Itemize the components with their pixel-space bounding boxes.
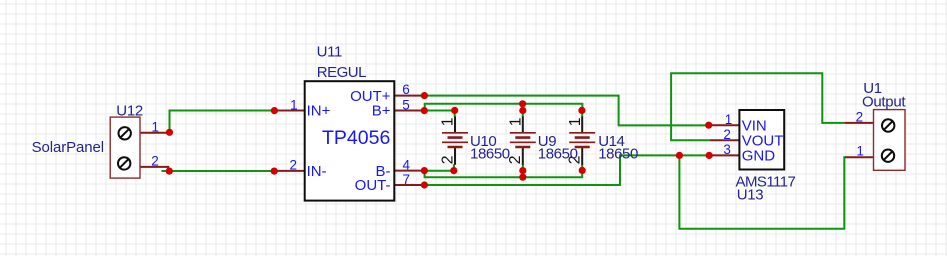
node U9 bottom — [519, 167, 526, 174]
pin U12.2 — [140, 167, 168, 171]
node U9 bus bottom — [519, 174, 526, 181]
wire U9 top drop — [522, 104, 524, 111]
node U12 pin2 — [166, 168, 173, 175]
wire OUT+ to VIN — [424, 96, 708, 126]
connector U12 body — [110, 117, 140, 178]
pin U12.1 — [140, 132, 170, 134]
svg-text:U12: U12 — [116, 103, 143, 120]
svg-text:2: 2 — [289, 157, 297, 172]
pin TP4056 B- — [394, 170, 424, 172]
node B- — [421, 167, 428, 174]
pin AMS1117 VIN — [709, 124, 740, 126]
wire U10 top stub — [454, 110, 456, 117]
pin TP4056 IN- — [274, 170, 305, 172]
svg-text:B+: B+ — [372, 103, 391, 120]
junction dots — [166, 92, 713, 189]
svg-text:U11: U11 — [317, 43, 343, 60]
pin TP4056 B+ — [394, 110, 424, 112]
svg-text:6: 6 — [402, 82, 410, 97]
pin TP4056 IN+ — [274, 110, 304, 112]
wire B- to U10 bottom — [424, 170, 453, 172]
node GND pin — [706, 152, 713, 159]
wire U10 bottom stub — [453, 164, 455, 170]
pin AMS1117 GND — [709, 154, 739, 156]
svg-text:REGUL: REGUL — [317, 64, 366, 81]
connector U12 screw 1 — [119, 127, 131, 139]
svg-text:3: 3 — [723, 142, 731, 157]
battery U10 short plates — [448, 138, 463, 147]
svg-text:1: 1 — [151, 119, 159, 134]
pin TP4056 OUT- — [394, 184, 424, 186]
battery U10 long plates — [442, 133, 468, 143]
node IN- — [271, 168, 278, 175]
svg-text:1: 1 — [725, 112, 733, 127]
node U12 pin1 — [166, 129, 173, 136]
IC U13 AMS1117 body — [739, 110, 784, 170]
svg-text:18650: 18650 — [470, 146, 510, 163]
wire U9 bottom drop — [522, 171, 524, 178]
node B+ — [421, 107, 428, 114]
battery U9 long plates — [510, 133, 536, 143]
IC U11 TP4056 body — [305, 81, 395, 200]
wire U14 top stub — [581, 110, 583, 117]
svg-text:GND: GND — [742, 148, 776, 165]
battery U9 short plates — [515, 138, 530, 147]
svg-text:2: 2 — [723, 127, 731, 142]
svg-text:OUT-: OUT- — [355, 177, 391, 194]
svg-text:2: 2 — [439, 156, 456, 165]
battery U9 pin leads — [522, 117, 524, 165]
battery U14 long plates — [569, 133, 595, 143]
wire U14 bottom stub — [581, 164, 583, 170]
connector U1 screw 2 — [882, 150, 894, 162]
battery U9 — [507, 117, 536, 165]
node U9 top — [519, 107, 526, 114]
battery U14 — [567, 117, 596, 165]
wire U9 bottom stub — [522, 164, 524, 170]
node U14 bottom — [579, 167, 586, 174]
wire B+ to U10 top — [424, 110, 454, 112]
wire U9 top stub — [522, 111, 524, 118]
svg-text:TP4056: TP4056 — [322, 127, 390, 149]
battery U14 pin leads — [581, 117, 583, 165]
node U14 top — [578, 107, 585, 114]
svg-text:IN-: IN- — [307, 163, 327, 180]
wire U12.2 to IN- — [162, 170, 275, 172]
svg-text:4: 4 — [403, 157, 411, 172]
svg-text:18650: 18650 — [538, 146, 578, 163]
node OUT+ — [421, 92, 428, 99]
svg-text:18650: 18650 — [598, 146, 638, 163]
node VIN — [705, 122, 712, 129]
node U10 bottom — [450, 167, 457, 174]
svg-text:1: 1 — [290, 97, 298, 112]
battery U10 — [439, 117, 468, 165]
svg-text:1: 1 — [856, 144, 864, 159]
svg-text:U13: U13 — [737, 187, 764, 204]
svg-text:1: 1 — [508, 117, 525, 126]
svg-text:2: 2 — [856, 110, 864, 125]
node U9 bus top — [519, 100, 526, 107]
wire top battery bus — [425, 104, 583, 111]
connector U12 screw 2 — [118, 157, 130, 169]
connector U1 body — [874, 110, 906, 171]
svg-text:Output: Output — [862, 94, 906, 111]
svg-text:1: 1 — [567, 117, 584, 126]
wire VOUT loop to Output pin2 — [671, 73, 844, 140]
node IN+ — [271, 107, 278, 114]
svg-text:7: 7 — [403, 172, 411, 187]
wire GND branch to Output pin1 — [679, 155, 845, 228]
pin U1.2 — [844, 122, 873, 124]
node GND tee — [676, 152, 683, 159]
node U10 top — [451, 107, 458, 114]
svg-text:SolarPanel: SolarPanel — [32, 139, 104, 156]
svg-text:5: 5 — [402, 97, 410, 112]
battery U14 short plates — [575, 138, 590, 147]
connector U1 screw 1 — [882, 119, 894, 131]
svg-text:1: 1 — [440, 117, 457, 126]
wire OUT- to GND — [424, 155, 709, 185]
wire U12.1 to IN+ — [170, 111, 275, 133]
pin AMS1117 VOUT — [710, 139, 740, 141]
wire bottom battery bus — [425, 170, 583, 177]
svg-text:2: 2 — [151, 154, 159, 169]
battery U10 pin leads — [454, 117, 456, 165]
svg-text:IN+: IN+ — [307, 103, 331, 120]
node OUT- — [421, 181, 428, 188]
svg-text:2: 2 — [507, 156, 524, 165]
pin U1.1 — [845, 156, 874, 158]
pin TP4056 OUT+ — [394, 95, 424, 97]
